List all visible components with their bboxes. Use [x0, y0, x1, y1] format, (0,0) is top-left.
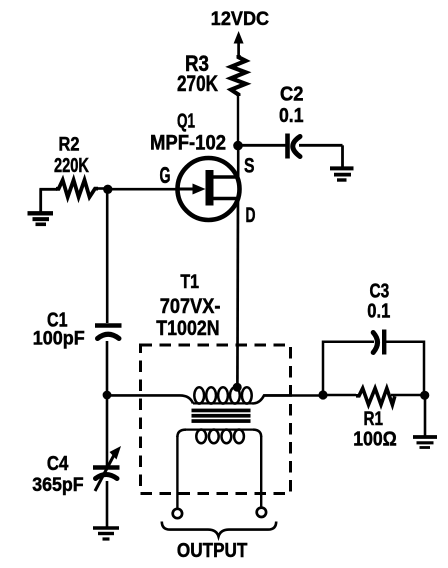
label 12VDC supply	[211, 8, 269, 30]
junction node R1 right	[420, 391, 429, 400]
svg-text:365pF: 365pF	[32, 475, 83, 496]
ground (C2)	[330, 168, 354, 180]
variable capacitor C4	[93, 446, 121, 491]
wire C2 to ground	[299, 145, 343, 168]
label R2	[59, 135, 80, 156]
output terminal right	[257, 508, 266, 517]
pin label D	[246, 203, 256, 227]
capacitor C2	[288, 134, 301, 159]
svg-text:R1: R1	[364, 408, 384, 430]
svg-text:D: D	[246, 203, 256, 227]
transformer T1 dashed enclosure	[141, 345, 291, 494]
resistor R3	[231, 55, 246, 96]
wire R3 to node	[237, 95, 239, 146]
label R3 value 270K	[177, 71, 218, 96]
wire C4 to ground	[106, 481, 109, 527]
pin label S	[244, 155, 255, 178]
wire ground to R2	[40, 188, 58, 191]
wire C3 branch right riser	[384, 342, 424, 395]
label C4 value 365pF	[32, 475, 83, 496]
output terminal left	[173, 509, 182, 518]
wire secondary left lead	[176, 436, 178, 509]
svg-text:Q1: Q1	[177, 111, 195, 133]
label R2 value 220K	[54, 155, 89, 177]
svg-text:0.1: 0.1	[279, 104, 304, 127]
ground (R2)	[28, 189, 54, 225]
svg-text:C4: C4	[47, 453, 69, 475]
label C2 value 0.1	[279, 104, 304, 127]
label C3	[370, 279, 390, 302]
label C4	[47, 453, 69, 475]
label OUTPUT	[177, 540, 248, 562]
svg-text:S: S	[244, 155, 255, 178]
svg-text:12VDC: 12VDC	[211, 8, 269, 30]
ground (C4)	[93, 528, 119, 539]
power arrow 12VDC	[234, 31, 244, 57]
capacitor C3	[373, 330, 384, 355]
wire node down to C4	[106, 395, 109, 466]
wire node to C2	[238, 144, 286, 147]
wire secondary right lead	[260, 436, 262, 507]
wire C1 to node	[106, 341, 109, 396]
svg-text:0.1: 0.1	[367, 299, 390, 322]
svg-text:R2: R2	[59, 135, 80, 156]
resistor R1	[356, 388, 395, 404]
svg-text:G: G	[160, 162, 171, 188]
wire R2 to node	[96, 187, 108, 190]
svg-text:C2: C2	[280, 83, 304, 106]
label T1 part 707VX-T1002N	[156, 294, 220, 340]
svg-text:100pF: 100pF	[33, 329, 85, 350]
svg-text:T1: T1	[180, 272, 199, 293]
label C3 value 0.1	[367, 299, 390, 322]
capacitor C1	[95, 326, 122, 339]
wire C3 branch left riser	[323, 342, 374, 395]
label C1	[47, 309, 68, 331]
transformer T1 secondary winding	[177, 430, 261, 444]
label Q1	[177, 111, 195, 133]
junction node at gate	[103, 185, 112, 194]
wire node to ground (R1)	[424, 395, 427, 436]
svg-text:MPF-102: MPF-102	[150, 132, 226, 155]
transformer T1 core	[192, 409, 251, 423]
resistor R2	[56, 180, 98, 197]
label R1	[364, 408, 384, 430]
label C1 value 100pF	[33, 329, 85, 350]
svg-text:100Ω: 100Ω	[353, 428, 397, 450]
svg-text:707VX-: 707VX-	[160, 294, 221, 318]
svg-text:220K: 220K	[54, 155, 89, 177]
junction node drain tap on primary	[233, 383, 242, 392]
junction node R1 left	[318, 390, 327, 399]
junction node C1/C4/T1	[103, 391, 112, 400]
wire R1 to node	[391, 394, 424, 397]
wire node down to transistor S	[237, 144, 240, 178]
svg-text:270K: 270K	[177, 71, 218, 96]
transformer T1 primary winding	[193, 387, 292, 403]
transistor Q1 (JFET, MPF-102)	[177, 158, 240, 220]
svg-text:OUTPUT: OUTPUT	[177, 540, 248, 562]
junction node at S/C2	[233, 141, 243, 151]
label R3	[185, 51, 209, 76]
wire node to R1	[323, 394, 356, 397]
label Q1 part MPF-102	[150, 132, 226, 155]
output brace	[162, 522, 276, 537]
wire node to T1 primary	[107, 395, 193, 403]
svg-text:T1002N: T1002N	[156, 316, 219, 340]
label T1	[180, 272, 199, 293]
wire T1 primary to R1 node	[264, 394, 324, 397]
wire node down to C1	[106, 189, 109, 323]
wire transistor D down to transformer tap	[236, 198, 239, 386]
pin label G	[160, 162, 171, 188]
label R1 value 100ohm	[353, 428, 397, 450]
wire node to gate G	[107, 188, 178, 191]
label C2	[280, 83, 304, 106]
ground (R1)	[413, 437, 437, 448]
